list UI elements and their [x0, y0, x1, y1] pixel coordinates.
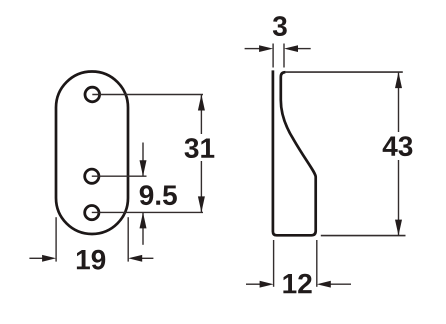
arrowhead 31 bottom — [198, 196, 205, 212]
arrow 12 right (points left) — [329, 283, 351, 285]
text background 31 — [185, 134, 214, 161]
extension line 3 right — [283, 44, 285, 68]
dimension text 3 — [273, 16, 287, 36]
dimension text 12 — [283, 274, 311, 294]
leader line from hole H2 to dimension 9.5 — [92, 175, 147, 177]
dimension text 9.5 — [140, 185, 177, 205]
extension line 12 left — [273, 240, 275, 287]
arrowhead 43 bottom — [395, 220, 402, 236]
arrow 3 right (points left) — [297, 48, 311, 50]
arrowhead 31 top — [198, 95, 205, 111]
leader line from hole H1 to dimension 31 — [92, 94, 203, 96]
dimension text 19 — [77, 250, 105, 270]
dimension line 31 (vertical) — [200, 95, 202, 213]
leader line from hole H3 to dimension 31/9.5 — [92, 211, 203, 213]
arrow 19 right (points left) — [140, 257, 153, 259]
extension line 12 right — [316, 240, 318, 287]
dimension text 43 — [383, 136, 413, 156]
hole H2 (middle) — [85, 169, 99, 183]
plate outline (left view obround) — [56, 72, 128, 235]
text background 43 — [383, 132, 414, 160]
arrow 19 left (points right) — [29, 257, 44, 259]
dimension line 43 (vertical) — [398, 72, 400, 236]
hole H1 (top) — [85, 87, 100, 102]
dimension 9.5 upper segment with arrowhead down — [142, 143, 144, 177]
leader line hook bottom to dimension 43 — [321, 235, 406, 237]
extension line 3 left — [272, 44, 274, 68]
leader line hook top to dimension 43 — [285, 71, 403, 73]
hook profile outline (right view) — [273, 70, 316, 235]
arrow 12 left (points right) — [246, 283, 261, 285]
hole H3 (bottom) — [85, 206, 99, 220]
extension line 19 right — [127, 217, 129, 261]
arrow 3 left (points right) — [245, 48, 260, 50]
dimension text 31 — [185, 138, 215, 158]
dimension 9.5 lower segment with arrowhead up — [142, 212, 144, 244]
arrowhead 43 top — [395, 72, 402, 88]
extension line 19 left — [55, 217, 57, 261]
